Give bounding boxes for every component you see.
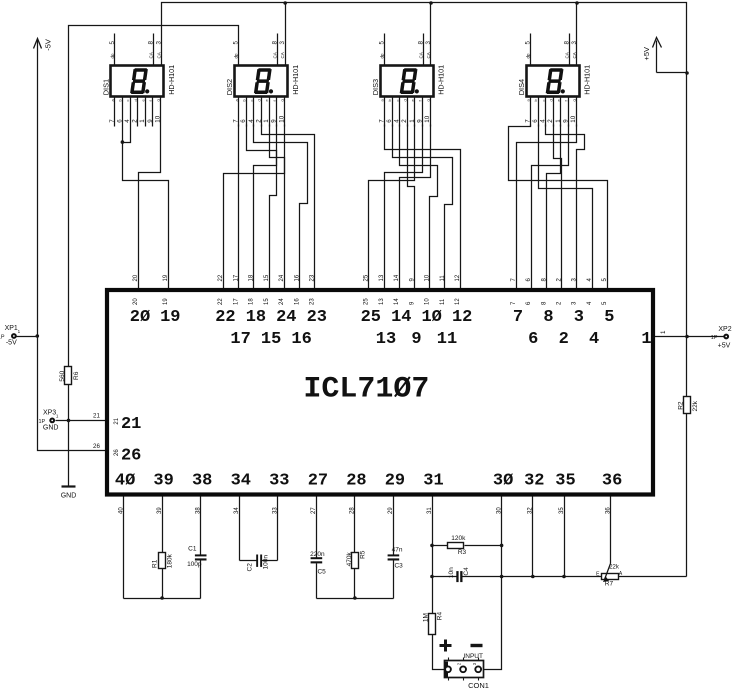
svg-text:38: 38 (192, 472, 212, 491)
svg-text:14: 14 (394, 298, 400, 305)
svg-text:6: 6 (532, 119, 539, 123)
svg-text:17: 17 (230, 330, 250, 349)
svg-text:+5V: +5V (642, 47, 651, 61)
svg-text:R1: R1 (152, 559, 159, 568)
svg-text:9: 9 (147, 119, 154, 123)
svg-text:HD-H101: HD-H101 (291, 65, 300, 95)
svg-text:4: 4 (589, 330, 599, 349)
svg-text:2: 2 (255, 119, 262, 123)
svg-text:3: 3 (574, 308, 584, 327)
svg-text:21: 21 (93, 413, 100, 420)
svg-text:25: 25 (361, 308, 381, 327)
svg-text:d: d (257, 99, 262, 101)
svg-text:CA: CA (280, 52, 285, 58)
svg-text:24: 24 (279, 298, 285, 305)
svg-text:1P: 1P (711, 335, 718, 341)
svg-text:R6: R6 (73, 371, 80, 380)
svg-text:d: d (548, 99, 553, 101)
svg-text:29: 29 (385, 472, 405, 491)
svg-text:2: 2 (132, 119, 139, 123)
svg-text:DIS2: DIS2 (225, 79, 234, 95)
svg-text:3: 3 (571, 41, 578, 45)
svg-text:12: 12 (452, 308, 472, 327)
svg-text:9: 9 (271, 119, 278, 123)
svg-text:7: 7 (524, 119, 531, 123)
svg-text:100p: 100p (187, 561, 202, 568)
svg-text:22: 22 (215, 308, 235, 327)
svg-text:120k: 120k (451, 535, 466, 542)
svg-text:C4: C4 (463, 567, 470, 576)
svg-text:14: 14 (394, 274, 400, 281)
svg-text:CA: CA (149, 52, 154, 58)
svg-text:6: 6 (116, 119, 123, 123)
svg-text:16: 16 (294, 274, 300, 281)
svg-text:22k: 22k (609, 565, 620, 571)
svg-text:32: 32 (524, 472, 544, 491)
svg-text:dp: dp (525, 53, 530, 59)
svg-text:5: 5 (233, 41, 240, 45)
svg-text:1: 1 (263, 119, 270, 123)
svg-text:7: 7 (513, 308, 523, 327)
svg-text:4Ø: 4Ø (115, 472, 135, 491)
svg-text:ICL71Ø7: ICL71Ø7 (303, 373, 429, 407)
svg-text:15: 15 (264, 298, 270, 305)
svg-text:21: 21 (121, 415, 141, 434)
svg-text:24: 24 (279, 274, 285, 281)
svg-text:d: d (133, 99, 138, 101)
svg-text:20: 20 (133, 274, 139, 281)
svg-text:HD-H101: HD-H101 (583, 65, 592, 95)
svg-text:INPUT: INPUT (463, 653, 483, 660)
svg-text:22: 22 (218, 298, 224, 305)
svg-text:2: 2 (401, 119, 408, 123)
svg-text:XP3: XP3 (43, 410, 56, 417)
svg-text:13: 13 (379, 298, 385, 305)
svg-text:14: 14 (391, 308, 411, 327)
svg-text:8: 8 (417, 41, 424, 45)
svg-text:CA: CA (273, 52, 278, 58)
svg-text:16: 16 (291, 330, 311, 349)
svg-text:23: 23 (310, 298, 316, 305)
svg-text:7: 7 (109, 119, 116, 123)
svg-text:11: 11 (440, 298, 446, 305)
svg-text:c: c (125, 100, 130, 102)
svg-text:c: c (541, 100, 546, 102)
svg-text:36: 36 (602, 472, 622, 491)
svg-text:19: 19 (160, 308, 180, 327)
svg-text:6: 6 (386, 119, 393, 123)
svg-text:35: 35 (555, 472, 575, 491)
svg-text:22k: 22k (692, 400, 699, 411)
svg-text:6: 6 (528, 330, 538, 349)
svg-text:10: 10 (424, 115, 431, 122)
svg-text:7: 7 (233, 119, 240, 123)
svg-text:26: 26 (93, 443, 100, 450)
svg-text:C1: C1 (188, 546, 197, 553)
svg-text:10: 10 (425, 298, 431, 305)
svg-text:HD-H101: HD-H101 (167, 65, 176, 95)
svg-text:CA: CA (418, 52, 423, 58)
svg-text:10: 10 (155, 115, 162, 122)
svg-text:11: 11 (440, 275, 446, 282)
svg-text:DIS4: DIS4 (517, 79, 526, 95)
svg-text:g: g (571, 99, 576, 101)
svg-text:1: 1 (409, 119, 416, 123)
svg-text:1: 1 (641, 330, 651, 349)
svg-text:10: 10 (570, 115, 577, 122)
svg-text:5: 5 (604, 308, 614, 327)
svg-text:CA: CA (564, 52, 569, 58)
svg-text:9: 9 (411, 330, 421, 349)
svg-text:13: 13 (376, 330, 396, 349)
svg-text:R2: R2 (677, 401, 684, 410)
svg-text:C5: C5 (317, 568, 326, 575)
svg-text:11: 11 (437, 330, 457, 349)
svg-text:dp: dp (234, 53, 239, 59)
svg-text:2Ø: 2Ø (130, 308, 150, 327)
svg-text:18: 18 (249, 274, 255, 281)
svg-text:12: 12 (455, 274, 461, 281)
svg-text:39: 39 (153, 472, 173, 491)
svg-text:HD-H101: HD-H101 (437, 65, 446, 95)
svg-text:3: 3 (425, 41, 432, 45)
svg-text:g: g (425, 99, 430, 101)
svg-text:XP2: XP2 (718, 326, 731, 333)
svg-text:3: 3 (279, 41, 286, 45)
svg-text:21: 21 (114, 417, 120, 424)
svg-text:26: 26 (121, 447, 141, 466)
svg-text:8: 8 (272, 41, 279, 45)
svg-text:CA: CA (426, 52, 431, 58)
svg-text:10: 10 (278, 115, 285, 122)
svg-text:31: 31 (423, 472, 443, 491)
svg-text:1Ø: 1Ø (421, 308, 441, 327)
svg-text:13: 13 (379, 274, 385, 281)
svg-text:47n: 47n (392, 547, 403, 554)
svg-text:R7: R7 (605, 581, 614, 588)
svg-text:1P: 1P (0, 334, 5, 340)
svg-text:4: 4 (394, 119, 401, 123)
svg-text:1: 1 (555, 119, 562, 123)
svg-text:3: 3 (155, 41, 162, 45)
svg-text:-5V: -5V (6, 340, 17, 347)
svg-text:19: 19 (163, 274, 169, 281)
svg-text:DIS1: DIS1 (101, 79, 110, 95)
svg-text:R3: R3 (458, 549, 467, 556)
svg-text:28: 28 (346, 472, 366, 491)
svg-text:5: 5 (109, 41, 116, 45)
svg-text:2: 2 (559, 330, 569, 349)
svg-text:4: 4 (248, 119, 255, 123)
svg-text:9: 9 (562, 119, 569, 123)
svg-text:180k: 180k (167, 553, 174, 568)
svg-text:100n: 100n (262, 555, 269, 570)
svg-text:15: 15 (261, 330, 281, 349)
svg-text:4: 4 (124, 119, 131, 123)
svg-text:1M: 1M (423, 613, 430, 622)
svg-text:20: 20 (133, 298, 139, 305)
svg-text:10n: 10n (448, 567, 455, 578)
svg-text:-5V: -5V (43, 39, 52, 51)
svg-text:560: 560 (59, 370, 66, 381)
svg-text:27: 27 (308, 472, 328, 491)
svg-text:25: 25 (364, 274, 370, 281)
svg-text:18: 18 (246, 308, 266, 327)
svg-text:23: 23 (310, 274, 316, 281)
svg-text:CA: CA (572, 52, 577, 58)
svg-text:GND: GND (61, 493, 77, 500)
svg-text:7: 7 (378, 119, 385, 123)
svg-text:C2: C2 (247, 563, 254, 572)
svg-text:18: 18 (249, 298, 255, 305)
svg-text:9: 9 (417, 119, 424, 123)
svg-text:1: 1 (660, 330, 667, 334)
svg-text:5: 5 (524, 41, 531, 45)
svg-text:1: 1 (139, 119, 146, 123)
svg-text:DIS3: DIS3 (371, 79, 380, 95)
svg-text:33: 33 (269, 472, 289, 491)
svg-text:+5V: +5V (718, 342, 731, 349)
svg-text:5: 5 (378, 41, 385, 45)
svg-text:23: 23 (307, 308, 327, 327)
svg-text:CON1: CON1 (468, 681, 489, 690)
svg-text:6: 6 (240, 119, 247, 123)
svg-text:34: 34 (231, 472, 251, 491)
svg-text:3Ø: 3Ø (493, 472, 513, 491)
svg-text:19: 19 (163, 298, 169, 305)
svg-text:24: 24 (276, 308, 296, 327)
svg-text:22: 22 (218, 274, 224, 281)
svg-text:17: 17 (233, 298, 239, 305)
svg-text:470k: 470k (346, 552, 353, 567)
svg-text:R4: R4 (437, 612, 444, 621)
svg-text:C3: C3 (394, 563, 403, 570)
svg-text:8: 8 (563, 41, 570, 45)
svg-text:c: c (249, 100, 254, 102)
svg-text:g: g (280, 99, 285, 101)
svg-text:25: 25 (364, 298, 370, 305)
svg-text:16: 16 (294, 298, 300, 305)
svg-text:26: 26 (114, 449, 120, 456)
svg-text:GND: GND (43, 424, 59, 431)
svg-text:XP1: XP1 (5, 325, 18, 332)
svg-text:220n: 220n (310, 551, 325, 558)
svg-text:4: 4 (540, 119, 547, 123)
svg-text:15: 15 (264, 274, 270, 281)
svg-text:17: 17 (233, 274, 239, 281)
svg-text:2: 2 (547, 119, 554, 123)
svg-text:10: 10 (425, 274, 431, 281)
svg-text:dp: dp (110, 53, 115, 59)
svg-text:dp: dp (379, 53, 384, 59)
svg-text:8: 8 (543, 308, 553, 327)
svg-text:CA: CA (156, 52, 161, 58)
svg-text:d: d (402, 99, 407, 101)
svg-text:g: g (156, 99, 161, 101)
svg-text:8: 8 (148, 41, 155, 45)
svg-text:c: c (395, 100, 400, 102)
svg-text:R5: R5 (360, 550, 367, 559)
svg-text:12: 12 (455, 298, 461, 305)
